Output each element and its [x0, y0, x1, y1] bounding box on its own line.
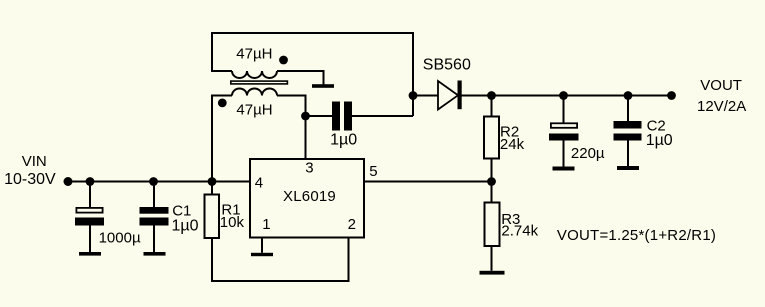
svg-text:220µ: 220µ [571, 145, 605, 162]
capacitor C1 top plate [140, 207, 169, 214]
svg-text:3: 3 [305, 160, 313, 177]
node junction dot 1000u [86, 177, 95, 186]
svg-text:1µ0: 1µ0 [172, 218, 199, 235]
node polarity dot L2 [218, 99, 227, 108]
wire coupling cap to switch node [352, 115, 413, 117]
svg-text:VIN: VIN [22, 153, 47, 170]
ground G6 (220u) [553, 167, 575, 171]
capacitor C2 bottom plate [614, 134, 642, 141]
node junction dot C2 [624, 91, 633, 100]
node junction dot 220u [559, 91, 568, 100]
wire L2 left lead down to input rail [212, 96, 232, 182]
node VOUT terminal dot [667, 91, 676, 100]
wire R2 top stub [491, 96, 493, 117]
wire top loop from L1 to switch node [212, 33, 413, 116]
ground G7 (C2) [617, 166, 639, 170]
svg-text:2.74k: 2.74k [501, 223, 538, 240]
wire C2 top stub [627, 96, 629, 122]
ground G2 (1000u) [79, 252, 101, 256]
node junction dot pin3/cap [301, 112, 310, 121]
node junction dot diode/R2 [487, 91, 496, 100]
svg-text:10-30V: 10-30V [4, 171, 56, 188]
wire output rail [492, 95, 672, 97]
svg-text:1µ0: 1µ0 [330, 132, 357, 149]
wire R1 bottom to IC pin2 loop [212, 238, 349, 282]
diode D1 cathode bar [458, 81, 462, 110]
svg-text:1: 1 [262, 216, 270, 233]
svg-text:1µ0: 1µ0 [646, 132, 673, 149]
node VIN terminal dot [64, 177, 73, 186]
capacitor C2 top plate [614, 121, 642, 129]
wire diode cathode to output node [462, 95, 493, 97]
svg-text:47µH: 47µH [236, 102, 272, 119]
svg-text:4: 4 [255, 175, 263, 192]
resistor R2 body [484, 117, 499, 159]
wire 1000u cap bottom stub [89, 226, 91, 253]
wire 220u cap top stub [563, 96, 565, 124]
capacitor C4 1u0 coupling plate right [344, 102, 352, 131]
node junction dot R1/pin4 [208, 177, 217, 186]
resistor R1 body [205, 195, 220, 239]
wire IC pin3 stub [305, 116, 307, 159]
wire L2 right lead down to node [277, 96, 306, 117]
svg-text:VOUT: VOUT [700, 77, 742, 94]
inductor L2 47uH secondary winding [232, 89, 277, 96]
wire L1 right lead to ground [277, 71, 324, 85]
ground G4 (IC pin1) [251, 253, 273, 256]
resistor R3 body [485, 203, 500, 247]
wire IC pin1 ground stub [261, 238, 263, 253]
wire input rail VIN [68, 181, 250, 183]
ground G1 (transformer) [312, 84, 334, 88]
svg-text:5: 5 [369, 163, 377, 180]
svg-text:2: 2 [348, 216, 356, 233]
node junction dot C1 [149, 177, 158, 186]
capacitor 220u top plate (polarized hollow) [551, 123, 577, 128]
wire C1 bottom stub [153, 226, 155, 253]
transformer core [231, 81, 288, 84]
wire 220u cap bottom stub [563, 141, 565, 167]
capacitor 1000u top plate (polarized hollow) [76, 208, 102, 213]
diode D1 SB560 triangle [438, 81, 458, 110]
node junction dot feedback [487, 177, 496, 186]
wire R3 bottom stub [491, 246, 493, 271]
wire C1 top stub [153, 182, 155, 208]
svg-text:24k: 24k [500, 136, 525, 153]
svg-text:10k: 10k [220, 214, 245, 231]
wire 1000u cap top stub [89, 182, 91, 208]
wire C2 bottom stub [627, 141, 629, 167]
wire switch node to diode anode [413, 95, 438, 97]
wire pin5 to feedback node [364, 181, 492, 183]
svg-text:SB560: SB560 [423, 57, 471, 74]
capacitor C1 bottom plate [140, 218, 169, 226]
wire R1 top stub [211, 182, 213, 195]
wire R2 bottom stub [491, 159, 493, 182]
ground G3 (C1) [144, 252, 166, 256]
capacitor 1000u bottom plate [75, 218, 104, 226]
inductor L1 47uH primary winding [232, 71, 277, 78]
node polarity dot L1 [279, 56, 288, 65]
ground G5 (R3) [480, 271, 505, 275]
svg-text:12V/2A: 12V/2A [697, 98, 746, 115]
svg-text:XL6019: XL6019 [283, 188, 336, 205]
wire node to coupling cap [306, 115, 333, 117]
svg-text:47µH: 47µH [236, 46, 272, 63]
op-amp U1 XL6019 box [250, 159, 364, 238]
svg-text:VOUT=1.25*(1+R2/R1): VOUT=1.25*(1+R2/R1) [557, 227, 716, 244]
svg-text:1000µ: 1000µ [99, 230, 141, 247]
capacitor C4 1u0 coupling plate left [332, 102, 340, 131]
wire R3 top stub [491, 182, 493, 203]
capacitor 220u bottom plate [549, 134, 579, 141]
node junction dot switch/diode [409, 91, 418, 100]
